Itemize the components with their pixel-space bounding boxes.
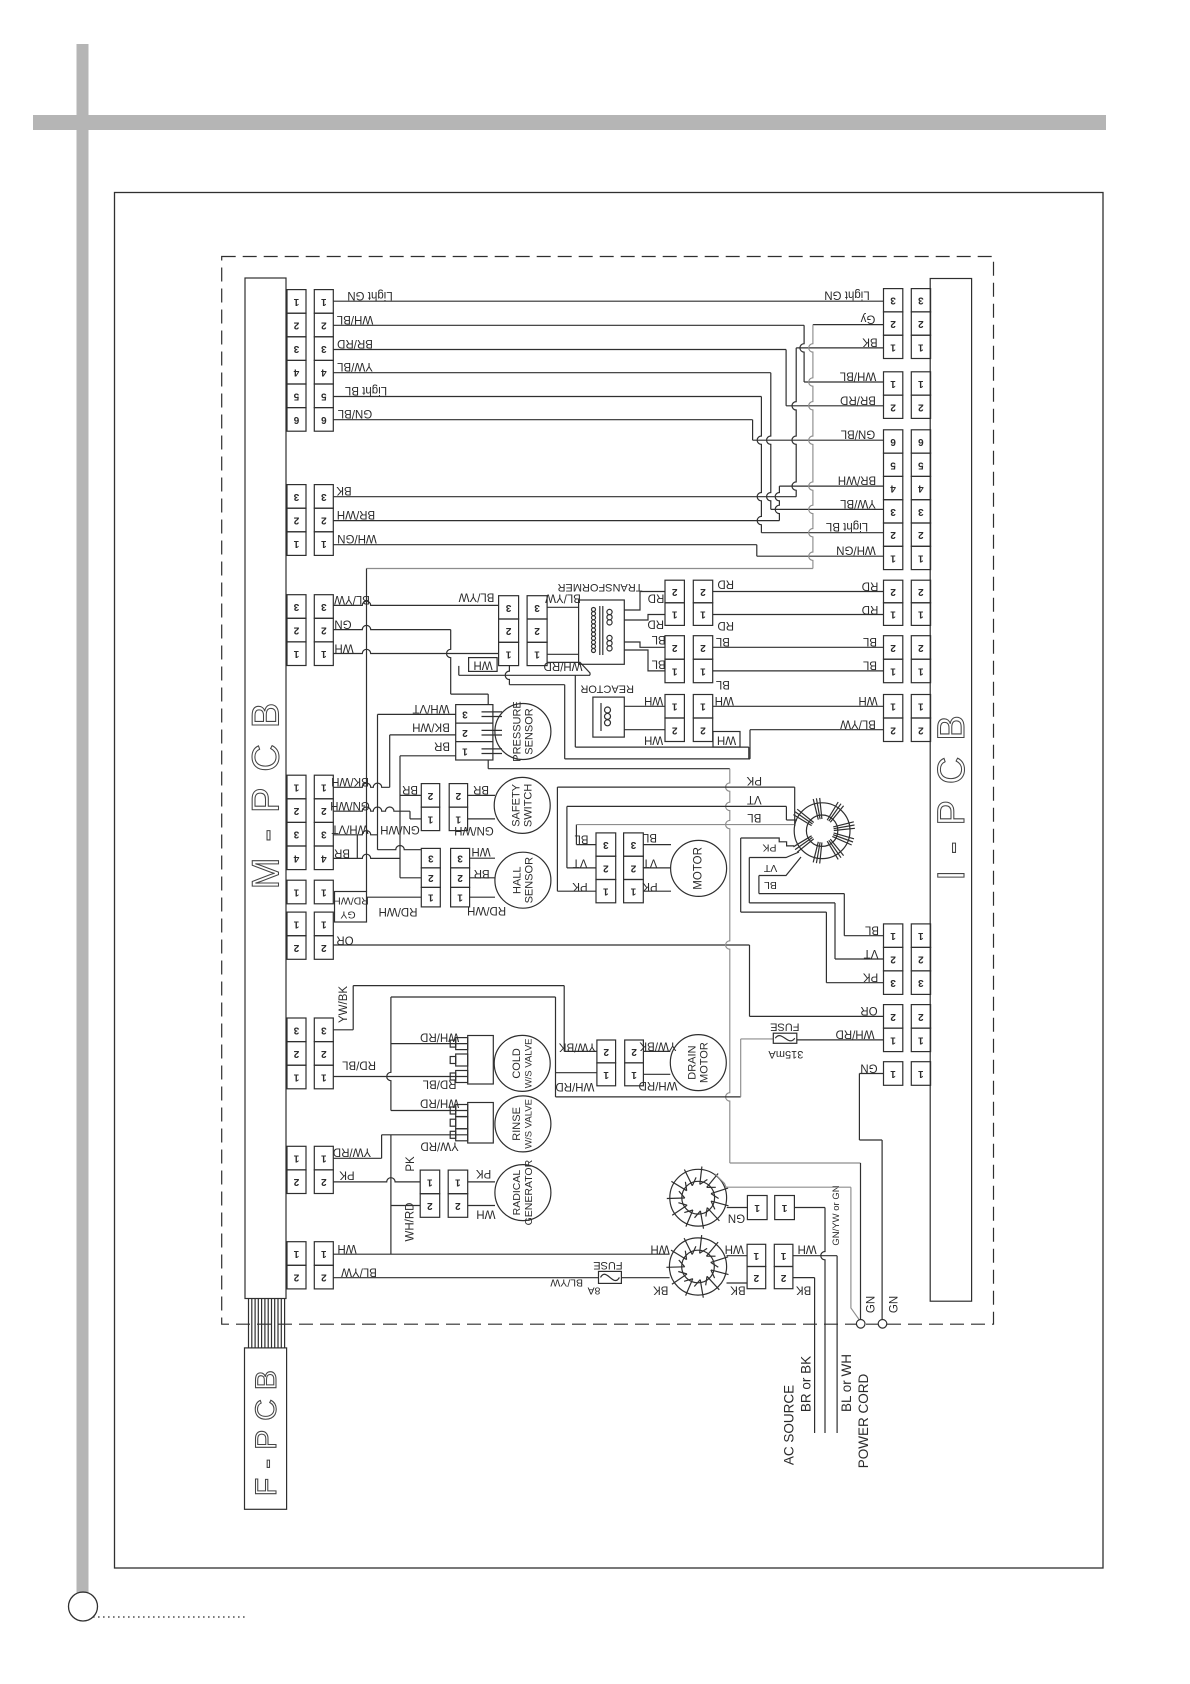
transformer secondary windings (607, 609, 612, 614)
wire RD/WH hall to sensor (470, 896, 495, 898)
svg-text:GN: GN (728, 1212, 745, 1224)
svg-text:1: 1 (293, 648, 299, 659)
svg-text:3: 3 (603, 839, 609, 850)
svg-text:1: 1 (321, 648, 327, 659)
svg-text:BL: BL (715, 635, 730, 647)
motor (671, 840, 727, 896)
rinse water valve (495, 1096, 551, 1152)
connector CN-M5 col2 (314, 880, 333, 904)
F-PCB board (245, 1348, 287, 1509)
svg-text:2: 2 (455, 790, 461, 801)
wire BL to I-PCB pin1 (844, 935, 883, 937)
wire vertical 564.7 (564, 685, 566, 759)
svg-text:Light GN: Light GN (347, 289, 392, 301)
wire BL row to pin column (759, 893, 844, 895)
wire OR vertical (749, 945, 751, 1016)
connector safety switch col2 (449, 784, 467, 808)
drain motor (670, 1035, 726, 1091)
page registration cross: horizontal gray bar (33, 115, 1106, 130)
fuse 8A (599, 1271, 622, 1283)
svg-text:3: 3 (457, 853, 463, 864)
connector drain motor col1 (597, 1040, 616, 1063)
connector hall sensor col1 (421, 848, 440, 868)
connector BL pair col1 (665, 636, 684, 660)
svg-text:PK: PK (476, 1167, 492, 1179)
connector CN-I5 col2 (911, 636, 930, 660)
svg-text:2: 2 (427, 1200, 433, 1211)
rinse valve connector (468, 1103, 494, 1144)
svg-text:BK: BK (653, 1284, 669, 1296)
svg-text:VT: VT (864, 947, 879, 959)
svg-text:2: 2 (534, 625, 540, 636)
svg-text:6: 6 (918, 436, 924, 447)
wire PK vertical to pin (825, 912, 827, 983)
svg-text:1: 1 (890, 552, 896, 563)
svg-text:YW/BK: YW/BK (338, 986, 350, 1023)
svg-text:GN/YW or GN: GN/YW or GN (831, 1185, 842, 1245)
wire GN earth bus (726, 769, 730, 1163)
svg-text:1: 1 (603, 1069, 609, 1080)
svg-text:3: 3 (293, 343, 299, 354)
wire YW/BK to drain pin2 (564, 1050, 597, 1052)
cold water valve (494, 1035, 550, 1091)
svg-text:2: 2 (293, 1272, 299, 1283)
svg-text:YW/BK: YW/BK (639, 1040, 676, 1052)
svg-text:WH: WH (334, 642, 353, 654)
wire YW/RD jog (381, 1135, 383, 1159)
svg-text:2: 2 (321, 1176, 327, 1187)
wire GN/BL (333, 419, 752, 421)
svg-text:1: 1 (890, 1068, 896, 1079)
svg-text:1: 1 (427, 1176, 433, 1187)
svg-text:SAFETY: SAFETY (511, 783, 523, 826)
wire GN/WH safety to switch (468, 818, 495, 820)
svg-text:1: 1 (700, 701, 706, 712)
wire BL/YW power row (333, 1277, 598, 1279)
svg-text:COLD: COLD (511, 1048, 523, 1079)
label WH boxed (469, 658, 498, 672)
svg-text:3: 3 (890, 506, 896, 517)
svg-text:RD: RD (648, 592, 665, 604)
svg-text:5: 5 (293, 390, 299, 401)
svg-text:315mA: 315mA (768, 1048, 804, 1060)
svg-text:1: 1 (457, 892, 463, 903)
svg-text:BR/WH: BR/WH (838, 474, 876, 486)
wire GN vertical 488 upper (487, 694, 489, 705)
svg-text:2: 2 (700, 586, 706, 597)
svg-text:POWER CORD: POWER CORD (856, 1373, 871, 1468)
svg-text:GY: GY (340, 909, 355, 921)
svg-text:1: 1 (781, 1202, 787, 1213)
wire GN earth row 1163 (730, 1162, 861, 1164)
svg-text:1: 1 (321, 1248, 327, 1259)
svg-text:WH: WH (798, 1243, 817, 1255)
wire WH/VT (333, 831, 377, 835)
svg-text:3: 3 (293, 1024, 299, 1035)
wire BR/RD to I-PCB (786, 405, 883, 407)
svg-text:2: 2 (630, 862, 636, 873)
bottom-left reference circle (69, 1592, 98, 1621)
svg-text:WH: WH (473, 658, 492, 670)
hall sensor (495, 852, 551, 908)
svg-text:BR/WH: BR/WH (337, 508, 375, 520)
svg-text:BL: BL (747, 811, 762, 823)
svg-text:RD: RD (717, 619, 734, 631)
wire RD bottom (713, 614, 884, 616)
wire GN I-PCB (859, 1073, 883, 1075)
wire BR/RD vertical (785, 350, 787, 406)
wire WH/VT vertical (377, 714, 379, 849)
label corridor BR (356, 835, 358, 859)
connector CN-M2 col1 (M-PCB 3-pin) (287, 485, 306, 509)
wire GN/BL to I-PCB (753, 439, 884, 441)
svg-text:1: 1 (321, 918, 327, 929)
connector safety switch col1 (421, 784, 439, 808)
transformer core (599, 606, 601, 655)
svg-text:1: 1 (293, 296, 299, 307)
svg-text:PK: PK (339, 1169, 355, 1181)
svg-text:3: 3 (534, 602, 540, 613)
transformer primary winding (592, 608, 596, 612)
svg-text:1: 1 (890, 666, 896, 677)
svg-text:3: 3 (321, 343, 327, 354)
wire OR (333, 944, 749, 946)
svg-text:1: 1 (455, 813, 461, 824)
svg-text:WH: WH (644, 734, 663, 746)
svg-text:WH/BL: WH/BL (336, 313, 373, 325)
connector CN-I4 col1 (I-PCB RD pair) (884, 580, 903, 603)
wire WH/RD loop row 675 (547, 662, 590, 675)
wire VT drop to filter (785, 806, 787, 820)
svg-text:1: 1 (293, 1153, 299, 1164)
svg-text:2: 2 (890, 401, 896, 412)
connector CN-M8 col1 (M-PCB 2-pin YW/RD PK) (287, 1146, 306, 1170)
svg-text:3: 3 (918, 506, 924, 517)
wire WH/RD vertical 391 (387, 997, 391, 1111)
svg-text:WH/RD: WH/RD (405, 1203, 417, 1242)
svg-text:WH: WH (858, 694, 877, 706)
wire WH/BL (333, 324, 804, 326)
wire GN earth vertical to chassis (860, 1163, 862, 1320)
chassis earth point 2 (878, 1320, 887, 1329)
connector CN-M1 col2 (314, 290, 333, 314)
wire WH/GN (333, 544, 757, 546)
wire VT to filter (567, 805, 787, 807)
svg-text:2: 2 (890, 642, 896, 653)
wire BK to power cord (793, 1277, 815, 1279)
svg-text:SWITCH: SWITCH (523, 784, 535, 827)
svg-text:3: 3 (321, 1024, 327, 1035)
wire BR/WH to I-PCB (779, 485, 883, 487)
safety switch (494, 777, 550, 833)
svg-text:GN: GN (866, 1296, 878, 1313)
svg-text:1: 1 (603, 886, 609, 897)
radical generator (495, 1165, 551, 1221)
svg-text:1: 1 (671, 701, 677, 712)
svg-text:2: 2 (918, 1011, 924, 1022)
wire YW/BK stub (333, 1029, 353, 1031)
bottom-left dotted leader line (93, 1616, 247, 1618)
svg-text:WH/VT: WH/VT (412, 702, 449, 714)
wire BL vertical to pin (843, 894, 845, 936)
wire WH/VT to hall pin3 (378, 846, 422, 850)
svg-text:DRAIN: DRAIN (687, 1045, 699, 1079)
svg-text:1: 1 (700, 609, 706, 620)
wire BR vertical (399, 756, 401, 878)
svg-text:2: 2 (700, 642, 706, 653)
svg-text:VT: VT (573, 857, 588, 869)
wire VT row 903 (749, 902, 835, 904)
svg-text:6: 6 (890, 436, 896, 447)
svg-text:1: 1 (753, 1250, 759, 1261)
svg-text:2: 2 (700, 724, 706, 735)
svg-text:1: 1 (505, 648, 511, 659)
svg-text:3: 3 (462, 708, 468, 719)
wire Gy middle row (367, 568, 813, 570)
wire YW/RD to rinse valve (382, 1134, 468, 1136)
power cord ferrite toroid (669, 1238, 726, 1295)
wire YW/BL vertical (767, 373, 771, 510)
svg-text:1: 1 (890, 609, 896, 620)
svg-text:2: 2 (428, 872, 434, 883)
svg-text:RD: RD (647, 618, 664, 630)
svg-text:2: 2 (890, 318, 896, 329)
wire transformer secondary to BL pins (624, 642, 665, 647)
wire BR (333, 854, 400, 858)
wire WH/BL vertical (800, 325, 804, 382)
svg-text:BR: BR (473, 783, 489, 795)
wire RD/WH to hall pin1 (367, 896, 422, 898)
svg-text:1: 1 (918, 930, 924, 941)
svg-text:2: 2 (455, 1200, 461, 1211)
svg-text:VT: VT (763, 862, 777, 874)
wire stub vertical 509.4 (505, 666, 509, 685)
reactor L1 (593, 697, 624, 737)
svg-text:2: 2 (462, 727, 468, 738)
svg-text:1: 1 (918, 701, 924, 712)
wire Light BL (333, 396, 761, 398)
svg-text:3: 3 (321, 829, 327, 840)
svg-text:RADICAL: RADICAL (511, 1170, 523, 1216)
wire GN vertical (858, 1074, 860, 1141)
svg-text:BR or BK: BR or BK (799, 1356, 814, 1412)
wire YW/BL to I-PCB (771, 508, 884, 510)
wire VT filter out (749, 852, 799, 858)
svg-text:1: 1 (700, 666, 706, 677)
wire Gy long vertical (809, 325, 813, 569)
connector CN-M5 col1 (M-PCB 1-pin RD/WH) (287, 880, 306, 904)
connector CN-I6 col2 (911, 695, 930, 719)
wire GN jog (859, 1139, 882, 1141)
svg-text:2: 2 (918, 724, 924, 735)
wire BL stub (758, 876, 760, 894)
svg-text:1: 1 (918, 341, 924, 352)
svg-text:RD/WH: RD/WH (379, 905, 418, 917)
svg-text:PRESSURE: PRESSURE (512, 701, 524, 762)
svg-text:GN: GN (888, 1296, 900, 1313)
reactor coil (600, 703, 602, 731)
svg-text:RD: RD (717, 578, 734, 590)
wire BR hall to sensor (470, 877, 495, 879)
svg-text:RD/WH: RD/WH (333, 895, 369, 907)
wire WH/RD fuse to I-PCB (797, 1039, 884, 1041)
wire WH hall to sensor (470, 857, 495, 859)
svg-text:2: 2 (321, 625, 327, 636)
svg-text:3: 3 (321, 491, 327, 502)
svg-text:6: 6 (321, 414, 327, 425)
wire RD top (713, 591, 884, 593)
svg-text:GN/BL: GN/BL (337, 407, 372, 419)
wire WH/RD to rinse valve (391, 1110, 468, 1112)
wire PK drop to filter (794, 787, 796, 826)
svg-text:BL/YW: BL/YW (458, 591, 494, 603)
svg-text:GENERATOR: GENERATOR (523, 1159, 535, 1225)
svg-text:GN/WH: GN/WH (454, 824, 494, 836)
svg-text:RINSE: RINSE (511, 1107, 523, 1141)
svg-text:BK: BK (336, 484, 352, 496)
svg-text:PK: PK (642, 880, 658, 892)
svg-text:2: 2 (293, 1048, 299, 1059)
wire Light GN (333, 300, 883, 302)
wire BL motor to circle (643, 844, 671, 846)
connector CN-M7 col1 (M-PCB 3-pin valves) (287, 1018, 306, 1042)
svg-text:BK: BK (730, 1284, 746, 1296)
svg-text:1: 1 (321, 887, 327, 898)
svg-text:1: 1 (321, 1153, 327, 1164)
svg-text:YW/BK: YW/BK (559, 1041, 596, 1053)
wire PK row 912 (741, 911, 827, 913)
wire BL motor (576, 844, 596, 846)
svg-text:RD/BL: RD/BL (422, 1078, 456, 1090)
svg-text:PK: PK (405, 1156, 417, 1172)
wire BR or BK power cord (814, 1278, 816, 1433)
svg-text:2: 2 (753, 1272, 759, 1283)
wire WH/GN vertical (756, 545, 758, 557)
svg-text:REACTOR: REACTOR (580, 683, 634, 695)
svg-text:WH/RD: WH/RD (544, 660, 583, 672)
cold valve connector (468, 1036, 494, 1085)
connector CN-M4 col1 (M-PCB 4-pin sensors) (287, 775, 306, 799)
svg-text:MOTOR: MOTOR (693, 847, 705, 890)
svg-text:2: 2 (321, 320, 327, 331)
wire YW/BL (333, 372, 771, 374)
connector CN-I1 col1 (I-PCB 3-pin) (884, 289, 903, 312)
svg-text:BL: BL (642, 831, 657, 843)
pressure sensor (495, 704, 551, 760)
reactor stubs (624, 705, 665, 707)
connector RD pair col1 (665, 580, 684, 603)
svg-text:4: 4 (918, 483, 924, 494)
ribbon cable between M-PCB and F-PCB (248, 1299, 250, 1348)
svg-text:3: 3 (293, 491, 299, 502)
svg-text:1: 1 (428, 892, 434, 903)
connector power toroid col2 (774, 1244, 793, 1266)
wire GN vertical to chassis (881, 1140, 883, 1320)
svg-text:2: 2 (505, 625, 511, 636)
svg-text:F-PCB: F-PCB (250, 1361, 283, 1496)
svg-text:4: 4 (890, 483, 896, 494)
svg-text:BL: BL (764, 879, 777, 891)
svg-text:2: 2 (918, 529, 924, 540)
svg-text:BK/WH: BK/WH (412, 721, 450, 733)
svg-text:BL: BL (651, 658, 666, 670)
svg-text:2: 2 (918, 954, 924, 965)
connector CN-M8 col2 (314, 1146, 333, 1170)
svg-text:BK: BK (862, 336, 878, 348)
wire GN/YW or GN power cord (821, 1208, 825, 1434)
svg-text:2: 2 (918, 401, 924, 412)
svg-text:WH/RD: WH/RD (836, 1028, 875, 1040)
svg-text:4: 4 (321, 852, 327, 863)
svg-text:YW/RD: YW/RD (420, 1140, 458, 1152)
svg-text:3: 3 (918, 295, 924, 306)
svg-text:WH: WH (725, 1243, 744, 1255)
pressure sensor connector (456, 705, 493, 760)
wire PK vertical out (740, 838, 742, 912)
svg-text:BR/RD: BR/RD (337, 337, 373, 349)
wire BL to filter (576, 824, 795, 826)
wire Gy left vertical (366, 569, 368, 892)
wire WH/BL to I-PCB (804, 381, 883, 383)
svg-text:PK: PK (863, 971, 879, 983)
wire BK (333, 496, 796, 498)
wire BL/YW vertical (749, 730, 751, 759)
svg-text:BL: BL (862, 659, 877, 671)
svg-text:2: 2 (321, 1048, 327, 1059)
wire BR safety to switch (468, 794, 495, 796)
svg-text:WH/GN: WH/GN (836, 544, 876, 556)
wire PK to filter (557, 786, 794, 788)
wire BR to hall pin2 (400, 877, 421, 879)
wire WH vertical to power row (390, 1135, 392, 1254)
svg-text:FUSE: FUSE (593, 1259, 622, 1271)
svg-text:1: 1 (293, 887, 299, 898)
wire WH/RD vertical 555 (555, 997, 557, 1097)
svg-text:WH: WH (715, 694, 734, 706)
svg-text:3: 3 (630, 839, 636, 850)
svg-text:2: 2 (780, 1272, 786, 1283)
wire WH reactor to I-PCB (713, 705, 884, 707)
svg-text:Light BL: Light BL (825, 520, 868, 532)
transformer T1 (579, 600, 625, 664)
svg-text:2: 2 (457, 872, 463, 883)
wire Light BL to I-PCB (761, 532, 883, 534)
svg-text:1: 1 (890, 378, 896, 389)
wire WH/RD row (459, 674, 590, 676)
wire GN/BL vertical (752, 420, 754, 441)
connector BL pair col2 (693, 636, 712, 660)
M-PCB board (245, 278, 286, 1299)
svg-text:WH/GN: WH/GN (337, 532, 377, 544)
wire GN/WH jog (409, 811, 411, 819)
wire BL or WH power cord (836, 1256, 838, 1433)
svg-text:GN: GN (860, 1062, 877, 1074)
wire row 759 (565, 758, 750, 760)
wire BL bottom (713, 670, 884, 672)
connector CN-I9 col1 (I-PCB GN) (884, 1062, 903, 1086)
wire PK motor to circle (643, 890, 671, 892)
svg-text:BL/YW: BL/YW (341, 1266, 377, 1278)
svg-text:1: 1 (918, 666, 924, 677)
svg-text:WH: WH (337, 1242, 356, 1254)
connector power toroid col1 (747, 1244, 766, 1266)
svg-text:WH/VT: WH/VT (331, 823, 368, 835)
connector CN-I7 col1 (I-PCB BL VT PK) (884, 924, 903, 948)
svg-text:SENSOR: SENSOR (524, 708, 536, 755)
svg-text:4: 4 (293, 852, 299, 863)
connector CN-I3 col2 (911, 430, 930, 453)
connector reactor pair col2 (693, 695, 712, 719)
